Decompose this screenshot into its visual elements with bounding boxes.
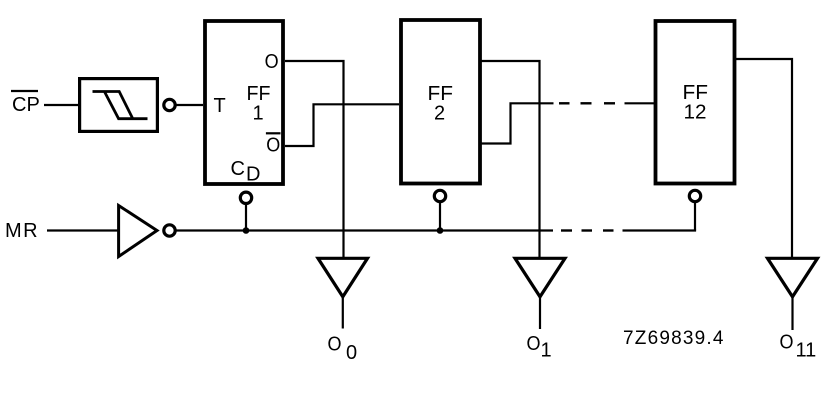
svg-text:7Z69839.4: 7Z69839.4 (623, 328, 725, 349)
wire MR input to inverter (47, 229, 118, 231)
pin O-bar (FF1 complement output) (266, 133, 281, 156)
svg-text:O: O (328, 334, 342, 356)
junction (MR line at FF2 CD) (437, 227, 444, 234)
inverter U2 (MR buffer triangle) (119, 206, 157, 257)
svg-text:CP: CP (12, 94, 40, 116)
wire MR line dashed run (561, 229, 614, 231)
wire O11 stub (791, 297, 793, 330)
inverter bubble (Schmitt output) (164, 99, 175, 110)
svg-text:0: 0 (346, 342, 357, 364)
svg-text:D: D (246, 164, 260, 186)
wire O0 stub (342, 297, 344, 329)
svg-text:O: O (265, 51, 279, 73)
wire FF1 O output to O0 buffer (285, 61, 344, 258)
label FF 1 (247, 83, 271, 125)
svg-text:2: 2 (434, 103, 445, 125)
flip-flop FF12 (box) (656, 21, 735, 184)
pin CD bubble (FF1) (240, 192, 251, 203)
svg-text:MR: MR (5, 220, 39, 242)
node O1 (label) (527, 333, 552, 362)
svg-text:11: 11 (796, 340, 817, 362)
wire FF12 O output to O11 buffer (736, 59, 792, 258)
junction (MR line at FF1 CD) (243, 227, 250, 234)
wire MR line solid run (177, 229, 554, 231)
pin CD (FF1 clear-direct label) (231, 158, 261, 186)
node CP (input label with overline) (11, 91, 40, 116)
wire FF2 O-bar toward FF12 (solid part) (481, 103, 554, 143)
label FF 2 (428, 83, 454, 125)
wire FF1 CD bubble to MR line (245, 204, 247, 231)
svg-text:T: T (214, 95, 226, 117)
svg-text:C: C (231, 158, 245, 180)
inverter bubble (MR) (164, 225, 175, 236)
wire FF1 O-bar to FF2 T input (285, 104, 399, 146)
svg-text:O: O (527, 333, 541, 355)
buffer U3 (O0 output triangle) (318, 258, 368, 297)
svg-text:1: 1 (252, 103, 263, 125)
pin CD bubble (FF12) (689, 190, 700, 201)
wire CP to Schmitt trigger (44, 104, 79, 106)
svg-text:O: O (780, 332, 794, 354)
wire O1 stub (539, 297, 541, 329)
svg-text:12: 12 (684, 102, 707, 124)
pin CD bubble (FF2) (434, 190, 445, 201)
wire bubble to FF1 T input (177, 104, 204, 106)
buffer U4 (O1 output triangle) (515, 258, 565, 297)
flip-flop FF1 (box) (205, 21, 283, 184)
wire FF2 O output to O1 buffer (481, 61, 540, 258)
wire dashed continuation to FF12 T input (559, 102, 654, 104)
label FF 12 (683, 82, 709, 124)
buffer U5 (O11 output triangle) (768, 258, 818, 297)
wire MR line final solid run to FF12 CD (623, 229, 697, 231)
svg-text:O: O (266, 135, 280, 157)
node O11 (label) (780, 332, 817, 362)
svg-text:1: 1 (541, 340, 552, 362)
Schmitt trigger U1 (box with hysteresis symbol) (80, 79, 158, 132)
flip-flop FF2 (box) (401, 20, 480, 184)
node O0 (label) (328, 334, 358, 365)
wire FF12 CD bubble to MR line (694, 202, 696, 231)
wire FF2 CD bubble to MR line (439, 202, 441, 231)
